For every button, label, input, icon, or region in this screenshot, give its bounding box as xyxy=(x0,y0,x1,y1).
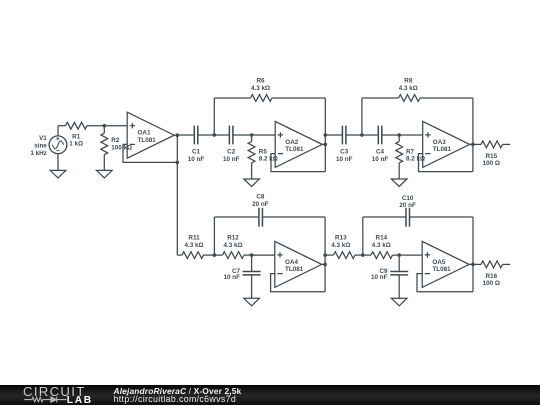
capacitor C3 xyxy=(342,126,346,145)
svg-text:sine: sine xyxy=(34,142,47,149)
node OA2 out junction xyxy=(324,143,328,147)
node H junction xyxy=(397,253,401,257)
op-amp OA3 xyxy=(423,121,470,167)
svg-text:C4: C4 xyxy=(376,149,385,156)
svg-text:1 kΩ: 1 kΩ xyxy=(69,141,83,148)
svg-text:R15: R15 xyxy=(486,153,498,160)
wire R2 to ground xyxy=(103,155,105,171)
capacitor C10 xyxy=(406,208,410,227)
svg-text:C1: C1 xyxy=(192,149,201,156)
svg-text:C3: C3 xyxy=(340,149,349,156)
op-amp OA5 xyxy=(422,241,469,287)
ground C7 xyxy=(244,298,260,306)
wire node B to R5 xyxy=(251,135,253,142)
wire C4 to node D xyxy=(382,134,399,136)
wire V1 top xyxy=(57,126,59,136)
node OA4 out junction xyxy=(323,263,327,267)
wire C8 left xyxy=(214,216,259,218)
node G junction xyxy=(361,253,365,257)
node IN junction xyxy=(103,124,107,128)
wire OA2 output xyxy=(322,143,325,145)
svg-text:R16: R16 xyxy=(486,273,498,280)
wire R14 to node H xyxy=(393,254,400,256)
svg-text:TL081: TL081 xyxy=(285,146,304,153)
wire C3 to node C xyxy=(346,134,362,136)
svg-text:R11: R11 xyxy=(188,235,200,242)
wire R5 to ground xyxy=(251,163,253,179)
wire OA1 feedback xyxy=(123,144,177,162)
ground R5 xyxy=(244,179,260,187)
svg-text:20 nF: 20 nF xyxy=(399,202,416,209)
wire node H to C9 xyxy=(398,255,400,272)
svg-text:10 nF: 10 nF xyxy=(224,274,241,281)
svg-text:1 kHz: 1 kHz xyxy=(30,150,46,157)
svg-text:100 Ω: 100 Ω xyxy=(483,160,500,167)
svg-text:OA3: OA3 xyxy=(433,139,446,146)
svg-text:10 nF: 10 nF xyxy=(336,156,353,163)
svg-text:4.3 kΩ: 4.3 kΩ xyxy=(223,242,242,249)
wire node D to R7 xyxy=(398,135,400,142)
svg-text:4.3 kΩ: 4.3 kΩ xyxy=(331,242,350,249)
svg-text:R5: R5 xyxy=(259,148,268,155)
svg-text:100 Ω: 100 Ω xyxy=(483,280,500,287)
wire OA3 feedback bottom xyxy=(419,154,473,172)
svg-text:4.3 kΩ: 4.3 kΩ xyxy=(251,85,270,92)
op-amp OA4 xyxy=(275,241,322,287)
svg-text:20 nF: 20 nF xyxy=(252,201,269,208)
capacitor C9 xyxy=(390,272,408,275)
svg-text:V1: V1 xyxy=(39,135,47,142)
capacitor C2 xyxy=(229,126,233,145)
resistor R5 xyxy=(248,142,255,163)
node E junction xyxy=(213,253,217,257)
resistor R14 xyxy=(371,252,392,259)
wire node C to C4 xyxy=(362,134,378,136)
wire OA5 out to R16 xyxy=(473,263,481,265)
wire node C up xyxy=(361,98,363,135)
svg-text:TL081: TL081 xyxy=(285,266,304,273)
wire node IN to R2 xyxy=(103,126,105,134)
ground C9 xyxy=(391,298,407,306)
wire node F to OA4 + xyxy=(252,254,275,256)
svg-text:C2: C2 xyxy=(227,149,236,156)
wire C10 left xyxy=(363,216,406,218)
node B junction xyxy=(250,133,254,137)
svg-text:R6: R6 xyxy=(256,78,265,85)
wire C8 right xyxy=(263,216,326,218)
wire OA5 output vertical xyxy=(472,217,474,292)
resistor R13 xyxy=(334,252,355,259)
wire OA1 out to C1 xyxy=(177,134,194,136)
wire OA2 feedback bottom xyxy=(271,154,325,172)
wire OA5 feedback bottom xyxy=(417,274,473,292)
wire OA1 output xyxy=(174,134,177,136)
svg-text:10 nF: 10 nF xyxy=(371,274,388,281)
svg-text:OA2: OA2 xyxy=(285,139,298,146)
resistor R6 xyxy=(251,95,272,102)
wire R8 left xyxy=(362,97,399,99)
resistor R7 xyxy=(396,142,403,163)
wire node B to OA2 + xyxy=(252,134,276,136)
CircuitLab logo resistor-diode glyph xyxy=(24,397,66,403)
wire R6 left xyxy=(214,97,250,99)
wire C2 to node B xyxy=(233,134,252,136)
resistor R2 xyxy=(101,133,108,154)
svg-text:OA5: OA5 xyxy=(432,259,445,266)
svg-text:10 nF: 10 nF xyxy=(188,156,205,163)
wire OA3 output vertical xyxy=(472,98,474,172)
resistor R16 xyxy=(481,261,502,268)
wire OA3 out to R15 xyxy=(473,143,481,145)
wire OA4 output xyxy=(322,263,325,265)
wire R6 right xyxy=(272,97,325,99)
svg-text:C8: C8 xyxy=(256,193,265,200)
svg-text:R1: R1 xyxy=(72,133,81,140)
svg-text:10 nF: 10 nF xyxy=(372,156,389,163)
resistor R15 xyxy=(481,141,502,148)
wire R16 output stub xyxy=(503,263,511,265)
svg-text:LAB: LAB xyxy=(67,395,93,405)
wire R13 to node G xyxy=(355,254,363,256)
wire C9 to ground xyxy=(398,275,400,298)
wire node IN to OA1 + xyxy=(104,125,127,127)
wire OA2 out to C3 xyxy=(325,134,342,136)
wire V1 bottom xyxy=(57,154,59,171)
node OA5 out junction xyxy=(471,263,475,267)
footer text line 1 xyxy=(114,387,242,395)
wire R8 right xyxy=(420,97,473,99)
svg-text:4.3 kΩ: 4.3 kΩ xyxy=(372,242,391,249)
wire C7 to ground xyxy=(251,275,253,298)
footer bar xyxy=(0,385,540,405)
svg-text:8.2 kΩ: 8.2 kΩ xyxy=(259,155,278,162)
wire V1 to R1 xyxy=(58,125,66,127)
wire R7 to ground xyxy=(398,163,400,179)
wire OA4 output vertical xyxy=(324,217,326,292)
wire C10 right xyxy=(410,216,473,218)
svg-text:8.2 kΩ: 8.2 kΩ xyxy=(406,155,425,162)
wire OA1 out vertical to bottom row xyxy=(176,135,178,255)
svg-text:TL081: TL081 xyxy=(138,137,157,144)
svg-text:OA1: OA1 xyxy=(138,130,151,137)
wire node E up xyxy=(213,217,215,255)
resistor R8 xyxy=(399,95,420,102)
node OA1 out junction xyxy=(176,133,180,137)
wire to R11 xyxy=(177,254,182,256)
wire node F to C7 xyxy=(251,255,253,272)
svg-text:100 kΩ: 100 kΩ xyxy=(111,145,132,152)
svg-text:4.3 kΩ: 4.3 kΩ xyxy=(399,85,418,92)
svg-text:R12: R12 xyxy=(227,235,239,242)
svg-text:TL081: TL081 xyxy=(432,266,451,273)
capacitor C8 xyxy=(259,208,263,227)
op-amp OA1 xyxy=(127,112,174,158)
resistor R1 xyxy=(66,122,87,129)
svg-text:R7: R7 xyxy=(406,148,415,155)
svg-text:10 nF: 10 nF xyxy=(223,156,240,163)
node A junction xyxy=(213,133,217,137)
node OA3 out junction xyxy=(471,143,475,147)
node OA4 signal junction xyxy=(323,253,327,257)
svg-text:4.3 kΩ: 4.3 kΩ xyxy=(184,242,203,249)
wire node G up xyxy=(362,217,364,255)
svg-text:OA4: OA4 xyxy=(285,259,298,266)
wire node E to R12 xyxy=(214,254,222,256)
svg-text:R13: R13 xyxy=(335,235,347,242)
node F junction xyxy=(250,253,254,257)
capacitor C7 xyxy=(243,272,261,275)
wire node A up xyxy=(213,98,215,135)
wire R1 to node IN xyxy=(87,125,104,127)
ground V1 xyxy=(50,170,66,178)
svg-text:R14: R14 xyxy=(376,235,388,242)
wire OA2 output vertical xyxy=(324,98,326,172)
wire C1 to node A xyxy=(198,134,214,136)
wire node D to OA3 + xyxy=(399,134,423,136)
capacitor C4 xyxy=(378,126,382,145)
wire OA5 output xyxy=(469,263,473,265)
svg-text:R8: R8 xyxy=(404,78,413,85)
wire node G to R14 xyxy=(363,254,371,256)
wire OA4 feedback bottom xyxy=(271,274,326,292)
op-amp OA2 xyxy=(275,121,322,167)
svg-text:TL081: TL081 xyxy=(433,146,452,153)
ground R7 xyxy=(391,179,407,187)
voltage source V1 xyxy=(49,136,67,154)
wire node H to OA5 + xyxy=(399,254,422,256)
resistor R12 xyxy=(223,252,244,259)
wire R11 to node E xyxy=(204,254,215,256)
wire node A to C2 xyxy=(214,134,229,136)
node D junction xyxy=(397,133,401,137)
wire OA3 output xyxy=(470,143,473,145)
node OA1 feedback junction xyxy=(176,161,180,165)
wire OA4 out to R13 xyxy=(325,254,333,256)
node OA2 signal junction xyxy=(324,133,328,137)
wire R15 output stub xyxy=(503,143,511,145)
node C junction xyxy=(360,133,364,137)
svg-text:C10: C10 xyxy=(402,195,414,202)
svg-text:R2: R2 xyxy=(111,137,120,144)
wire R12 to node F xyxy=(244,254,252,256)
resistor R11 xyxy=(182,252,203,259)
ground R2 xyxy=(97,170,113,178)
capacitor C1 xyxy=(194,126,198,145)
footer text line 2 xyxy=(114,395,237,404)
